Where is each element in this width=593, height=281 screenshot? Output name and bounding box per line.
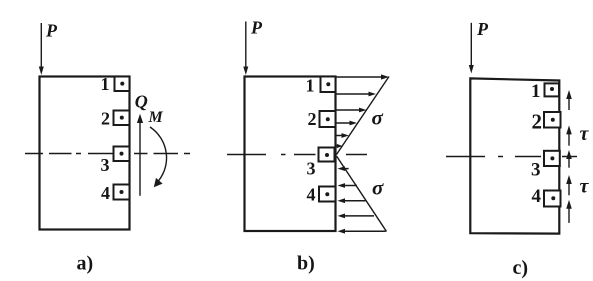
- svg-text:P: P: [476, 19, 489, 39]
- svg-text:σ: σ: [372, 176, 384, 200]
- svg-text:1: 1: [531, 81, 541, 102]
- svg-text:4: 4: [101, 183, 110, 203]
- svg-text:c): c): [513, 257, 529, 279]
- svg-text:M: M: [148, 109, 164, 126]
- svg-text:Q: Q: [135, 92, 148, 112]
- svg-text:1: 1: [101, 74, 110, 94]
- svg-text:σ: σ: [372, 106, 384, 130]
- svg-text:2: 2: [101, 109, 110, 129]
- svg-text:3: 3: [307, 159, 316, 179]
- svg-text:1: 1: [306, 76, 315, 96]
- svg-text:3: 3: [101, 155, 110, 175]
- svg-text:3: 3: [531, 160, 541, 181]
- svg-text:τ: τ: [580, 123, 590, 145]
- svg-text:b): b): [297, 253, 315, 275]
- svg-text:P: P: [250, 18, 263, 38]
- svg-text:2: 2: [532, 110, 543, 134]
- svg-text:P: P: [45, 20, 58, 40]
- svg-text:τ: τ: [580, 176, 590, 198]
- svg-text:4: 4: [532, 186, 542, 207]
- svg-text:4: 4: [307, 185, 316, 205]
- svg-text:2: 2: [308, 109, 317, 129]
- svg-text:a): a): [77, 253, 94, 275]
